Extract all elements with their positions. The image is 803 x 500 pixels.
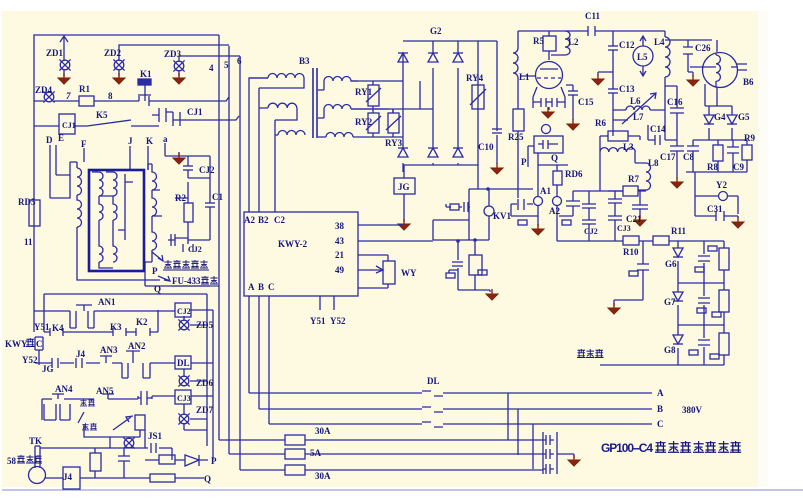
svg-text:DL: DL xyxy=(427,376,440,386)
svg-text:F: F xyxy=(81,139,87,149)
svg-text:G6: G6 xyxy=(665,259,677,269)
svg-text:380V: 380V xyxy=(682,405,703,415)
svg-text:ZD5: ZD5 xyxy=(196,320,214,330)
svg-text:RD5: RD5 xyxy=(18,197,36,207)
svg-text:CJ3: CJ3 xyxy=(177,394,191,403)
svg-text:K5: K5 xyxy=(96,110,108,120)
svg-text:B: B xyxy=(657,404,663,414)
svg-text:C9: C9 xyxy=(733,162,744,172)
svg-text:RD6: RD6 xyxy=(565,169,583,179)
svg-text:L1: L1 xyxy=(519,72,530,82)
svg-text:C10: C10 xyxy=(478,142,494,152)
svg-text:CJ2: CJ2 xyxy=(177,307,191,316)
svg-text:AN5: AN5 xyxy=(96,386,114,396)
svg-text:KWY: KWY xyxy=(5,339,28,349)
svg-text:C17: C17 xyxy=(660,152,676,162)
svg-text:A2: A2 xyxy=(549,206,560,216)
svg-text:Y52: Y52 xyxy=(330,316,346,326)
svg-text:RY3: RY3 xyxy=(385,138,403,148)
svg-text:K3: K3 xyxy=(110,322,122,332)
svg-text:A1: A1 xyxy=(540,186,551,196)
svg-text:38: 38 xyxy=(335,221,345,231)
svg-text:B6: B6 xyxy=(743,77,754,87)
svg-text:C8: C8 xyxy=(683,152,694,162)
svg-text:WY: WY xyxy=(401,268,417,278)
svg-text:P: P xyxy=(211,456,217,466)
svg-text:C21: C21 xyxy=(626,214,642,224)
svg-text:P: P xyxy=(521,157,527,167)
svg-text:ZD4: ZD4 xyxy=(35,85,53,95)
svg-text:E: E xyxy=(58,133,64,143)
svg-text:7: 7 xyxy=(66,91,71,101)
svg-text:R11: R11 xyxy=(671,226,687,236)
svg-text:C11: C11 xyxy=(585,11,601,21)
svg-text:Y52: Y52 xyxy=(22,355,38,365)
svg-text:5A: 5A xyxy=(310,448,322,458)
svg-text:AN4: AN4 xyxy=(55,384,73,394)
svg-text:CJ2: CJ2 xyxy=(199,165,215,175)
svg-text:KWY-2: KWY-2 xyxy=(278,239,308,249)
svg-text:Q: Q xyxy=(551,153,558,163)
svg-text:L2: L2 xyxy=(568,37,579,47)
svg-text:JS1: JS1 xyxy=(148,431,163,441)
svg-text:JG: JG xyxy=(398,182,410,192)
svg-text:ZD7: ZD7 xyxy=(196,405,214,415)
svg-text:A: A xyxy=(248,282,255,292)
svg-text:AN2: AN2 xyxy=(128,341,146,351)
svg-text:RY2: RY2 xyxy=(355,117,373,127)
svg-text:58: 58 xyxy=(7,456,17,466)
svg-text:6: 6 xyxy=(237,56,242,66)
svg-text:C15: C15 xyxy=(578,97,594,107)
svg-text:P: P xyxy=(152,266,158,276)
svg-text:C1: C1 xyxy=(212,192,223,202)
svg-text:RY4: RY4 xyxy=(466,73,484,83)
svg-text:C2: C2 xyxy=(274,215,285,225)
svg-text:A2: A2 xyxy=(244,215,255,225)
svg-text:49: 49 xyxy=(335,265,345,275)
svg-text:C16: C16 xyxy=(667,97,683,107)
svg-text:Q: Q xyxy=(154,284,161,294)
svg-text:30A: 30A xyxy=(315,471,331,481)
svg-text:GP100--C4: GP100--C4 xyxy=(601,441,653,455)
svg-text:L7: L7 xyxy=(633,112,644,122)
svg-text:21: 21 xyxy=(335,250,345,260)
svg-text:Y2: Y2 xyxy=(716,180,727,190)
svg-text:B: B xyxy=(258,282,264,292)
svg-text:CJ2: CJ2 xyxy=(188,245,202,254)
svg-text:Y51: Y51 xyxy=(34,322,50,332)
svg-text:R1: R1 xyxy=(79,84,90,94)
svg-text:CJ2: CJ2 xyxy=(584,227,598,236)
svg-text:C12: C12 xyxy=(619,40,635,50)
svg-text:G5: G5 xyxy=(738,112,750,122)
svg-text:J: J xyxy=(128,136,133,146)
svg-text:11: 11 xyxy=(24,237,33,247)
svg-text:L6: L6 xyxy=(630,96,641,106)
svg-text:R2: R2 xyxy=(175,193,186,203)
svg-text:C: C xyxy=(657,419,664,429)
svg-text:C26: C26 xyxy=(695,43,711,53)
svg-text:ZD6: ZD6 xyxy=(196,378,214,388)
svg-text:R25: R25 xyxy=(508,132,524,142)
svg-text:K: K xyxy=(146,136,153,146)
svg-text:C31: C31 xyxy=(707,204,723,214)
svg-text:K4: K4 xyxy=(52,323,64,333)
svg-text:AN3: AN3 xyxy=(100,345,118,355)
svg-text:D: D xyxy=(46,135,53,145)
svg-text:L4: L4 xyxy=(654,37,665,47)
svg-text:a: a xyxy=(163,134,168,144)
svg-text:L8: L8 xyxy=(648,158,659,168)
svg-text:ZD1: ZD1 xyxy=(46,48,64,58)
svg-text:B2: B2 xyxy=(258,215,269,225)
svg-text:G4: G4 xyxy=(714,112,726,122)
svg-text:Q: Q xyxy=(204,474,211,484)
svg-text:J4: J4 xyxy=(76,349,86,359)
svg-text:K2: K2 xyxy=(136,317,148,327)
svg-text:L3: L3 xyxy=(623,142,634,152)
svg-text:J4: J4 xyxy=(63,472,73,482)
svg-text:AN1: AN1 xyxy=(98,297,116,307)
svg-text:FU-433: FU-433 xyxy=(172,276,201,286)
svg-text:CJ3: CJ3 xyxy=(617,224,631,233)
svg-text:A: A xyxy=(657,388,664,398)
svg-text:G7: G7 xyxy=(664,297,676,307)
svg-text:CJ1: CJ1 xyxy=(187,107,203,117)
svg-text:C14: C14 xyxy=(650,124,666,134)
svg-text:Y51: Y51 xyxy=(310,316,326,326)
svg-text:C13: C13 xyxy=(619,84,635,94)
svg-text:R10: R10 xyxy=(623,247,639,257)
svg-text:C: C xyxy=(268,282,275,292)
svg-text:CJ1: CJ1 xyxy=(62,121,76,130)
svg-text:5: 5 xyxy=(224,60,229,70)
svg-text:ZD2: ZD2 xyxy=(104,48,122,58)
svg-text:G8: G8 xyxy=(664,345,676,355)
svg-text:TK: TK xyxy=(29,436,42,446)
svg-text:4: 4 xyxy=(209,63,214,73)
svg-text:ZD3: ZD3 xyxy=(164,49,182,59)
svg-text:R9: R9 xyxy=(744,133,755,143)
svg-text:K1: K1 xyxy=(140,69,152,79)
svg-text:43: 43 xyxy=(335,236,345,246)
svg-text:JG: JG xyxy=(42,364,54,374)
svg-text:30A: 30A xyxy=(315,426,331,436)
svg-text:R6: R6 xyxy=(595,118,606,128)
svg-text:L5: L5 xyxy=(637,52,648,62)
svg-text:G2: G2 xyxy=(430,26,442,36)
svg-text:KV1: KV1 xyxy=(493,211,512,221)
svg-text:DL: DL xyxy=(177,358,190,368)
svg-text:R7: R7 xyxy=(628,174,639,184)
svg-text:RY1: RY1 xyxy=(355,87,373,97)
svg-text:C: C xyxy=(36,339,43,349)
svg-text:R5: R5 xyxy=(533,36,544,46)
svg-text:8: 8 xyxy=(108,91,113,101)
svg-text:B3: B3 xyxy=(299,56,310,66)
svg-text:R8: R8 xyxy=(707,162,718,172)
